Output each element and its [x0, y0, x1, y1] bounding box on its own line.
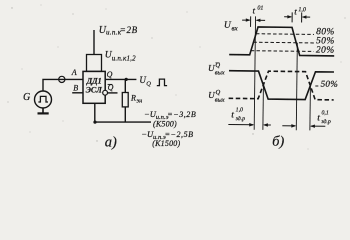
label Uвх — [224, 21, 239, 33]
svg-text:зд.р: зд.р — [235, 115, 246, 122]
IC DD1 box — [83, 71, 105, 103]
50% crossing label — [315, 85, 319, 87]
supply wire — [93, 30, 95, 55]
svg-text:R: R — [130, 93, 136, 102]
delay t_здр_10 measure — [228, 123, 271, 127]
svg-text:t: t — [231, 110, 234, 120]
svg-text:01: 01 — [257, 5, 263, 11]
wire resistor to rail — [124, 107, 126, 122]
reference vertical V1 (input rise 50%) — [254, 16, 255, 129]
connector X1 — [59, 76, 65, 82]
svg-text:(К500): (К500) — [153, 120, 177, 129]
wire junction to resistor — [124, 79, 126, 92]
svg-text:Q: Q — [146, 81, 151, 88]
label Uипк=2В — [99, 25, 138, 37]
svg-text:G: G — [23, 92, 30, 103]
svg-text:=2В: =2В — [120, 25, 138, 35]
reference vertical V4 (second crossing) — [309, 86, 312, 130]
reference vertical V2 (first crossing) — [262, 85, 265, 129]
svg-text:зд.р: зд.р — [320, 118, 331, 125]
ground — [38, 108, 49, 113]
svg-text:Q: Q — [215, 89, 220, 96]
svg-text:1,0: 1,0 — [298, 7, 306, 13]
svg-text:вх: вх — [231, 24, 238, 32]
output Qbar waveform (solid) — [229, 71, 334, 100]
supply pin box — [87, 55, 102, 72]
svg-text:и.п.к1,2: и.п.к1,2 — [112, 54, 136, 62]
input waveform — [229, 27, 334, 56]
svg-text:1,0: 1,0 — [236, 107, 243, 113]
svg-text:вых: вых — [215, 69, 225, 76]
rise time t01 measure — [242, 16, 265, 27]
svg-text:ЭСЛ: ЭСЛ — [86, 86, 103, 95]
generator G — [23, 91, 52, 108]
output Q waveform (dashed) — [229, 71, 334, 100]
level line 50% — [253, 41, 313, 44]
resistor Rэн — [122, 93, 142, 107]
reference vertical V3 (input fall 50%) — [296, 43, 297, 130]
svg-text:(К1500): (К1500) — [152, 139, 180, 148]
wire Q-bar output — [108, 92, 118, 94]
wire input B — [72, 92, 83, 94]
svg-text:=−3,2В: =−3,2В — [167, 110, 196, 119]
svg-text:ДД1: ДД1 — [86, 76, 102, 85]
svg-text:Q: Q — [107, 70, 113, 79]
label U_вых_Qbar — [208, 62, 225, 77]
svg-text:вых: вых — [215, 97, 225, 104]
delay t_здр_01 measure — [282, 124, 325, 128]
svg-text:B: B — [73, 83, 78, 92]
junction on rail — [93, 121, 96, 124]
svg-text:A: A — [71, 68, 77, 77]
svg-text:t: t — [317, 113, 320, 123]
wire generator to connector — [43, 79, 83, 91]
label Uипк1,2 — [105, 51, 136, 63]
supply labels -Uипэ — [141, 109, 196, 148]
svg-text:а): а) — [105, 134, 117, 150]
output Q wire — [105, 78, 136, 80]
svg-text:=−2,5В: =−2,5В — [165, 130, 194, 139]
label U_Q — [139, 75, 151, 88]
svg-text:50%: 50% — [321, 79, 339, 89]
bottom rail — [95, 121, 151, 123]
junction on Q wire — [125, 78, 128, 81]
wire IC bottom to rail — [94, 103, 96, 122]
fall time t10 measure — [284, 12, 310, 22]
pulse symbol at output — [157, 79, 167, 86]
level line 20% — [251, 50, 314, 53]
svg-text:20%: 20% — [316, 46, 335, 56]
svg-text:б): б) — [272, 134, 284, 150]
inverter bubble Q-bar — [103, 90, 108, 95]
svg-text:0,1: 0,1 — [321, 110, 328, 116]
label U_вых_Q — [208, 89, 225, 104]
level line 80% — [256, 33, 314, 36]
svg-text:эн: эн — [136, 98, 142, 105]
paper specks (noise) — [7, 5, 345, 150]
